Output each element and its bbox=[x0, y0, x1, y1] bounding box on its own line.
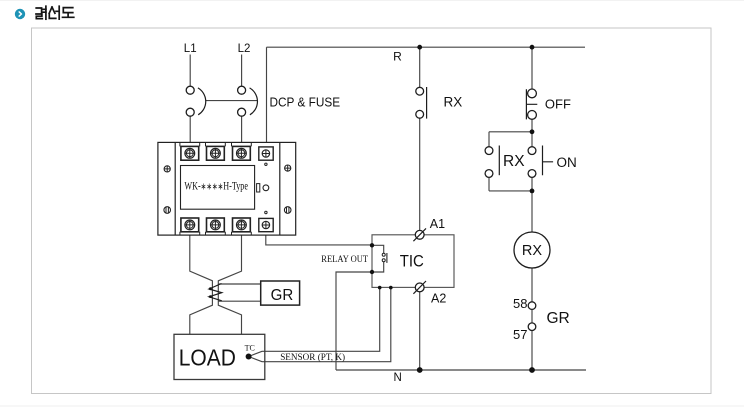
svg-text:A2: A2 bbox=[431, 292, 446, 306]
svg-text:RELAY OUT: RELAY OUT bbox=[321, 255, 368, 265]
svg-text:A1: A1 bbox=[430, 217, 445, 231]
svg-text:RX: RX bbox=[503, 153, 525, 170]
svg-text:GR: GR bbox=[547, 310, 570, 327]
svg-text:N: N bbox=[394, 372, 402, 384]
svg-text:RX: RX bbox=[444, 94, 463, 109]
svg-text:LOAD: LOAD bbox=[179, 345, 236, 371]
svg-text:ON: ON bbox=[557, 155, 577, 170]
svg-text:DCP & FUSE: DCP & FUSE bbox=[270, 95, 341, 110]
svg-text:TC: TC bbox=[245, 343, 255, 352]
svg-text:R: R bbox=[393, 50, 402, 64]
svg-text:L2: L2 bbox=[238, 43, 251, 55]
svg-text:57: 57 bbox=[513, 327, 527, 342]
svg-text:OFF: OFF bbox=[545, 97, 571, 112]
svg-text:SENSOR (PT, K): SENSOR (PT, K) bbox=[280, 352, 345, 363]
svg-text:TIC: TIC bbox=[400, 252, 424, 271]
svg-text:WK-∗∗∗∗H-Type: WK-∗∗∗∗H-Type bbox=[184, 181, 248, 193]
svg-text:GR: GR bbox=[271, 287, 294, 304]
svg-text:58: 58 bbox=[513, 296, 527, 311]
svg-text:RX: RX bbox=[522, 243, 542, 259]
svg-text:L1: L1 bbox=[184, 43, 197, 55]
